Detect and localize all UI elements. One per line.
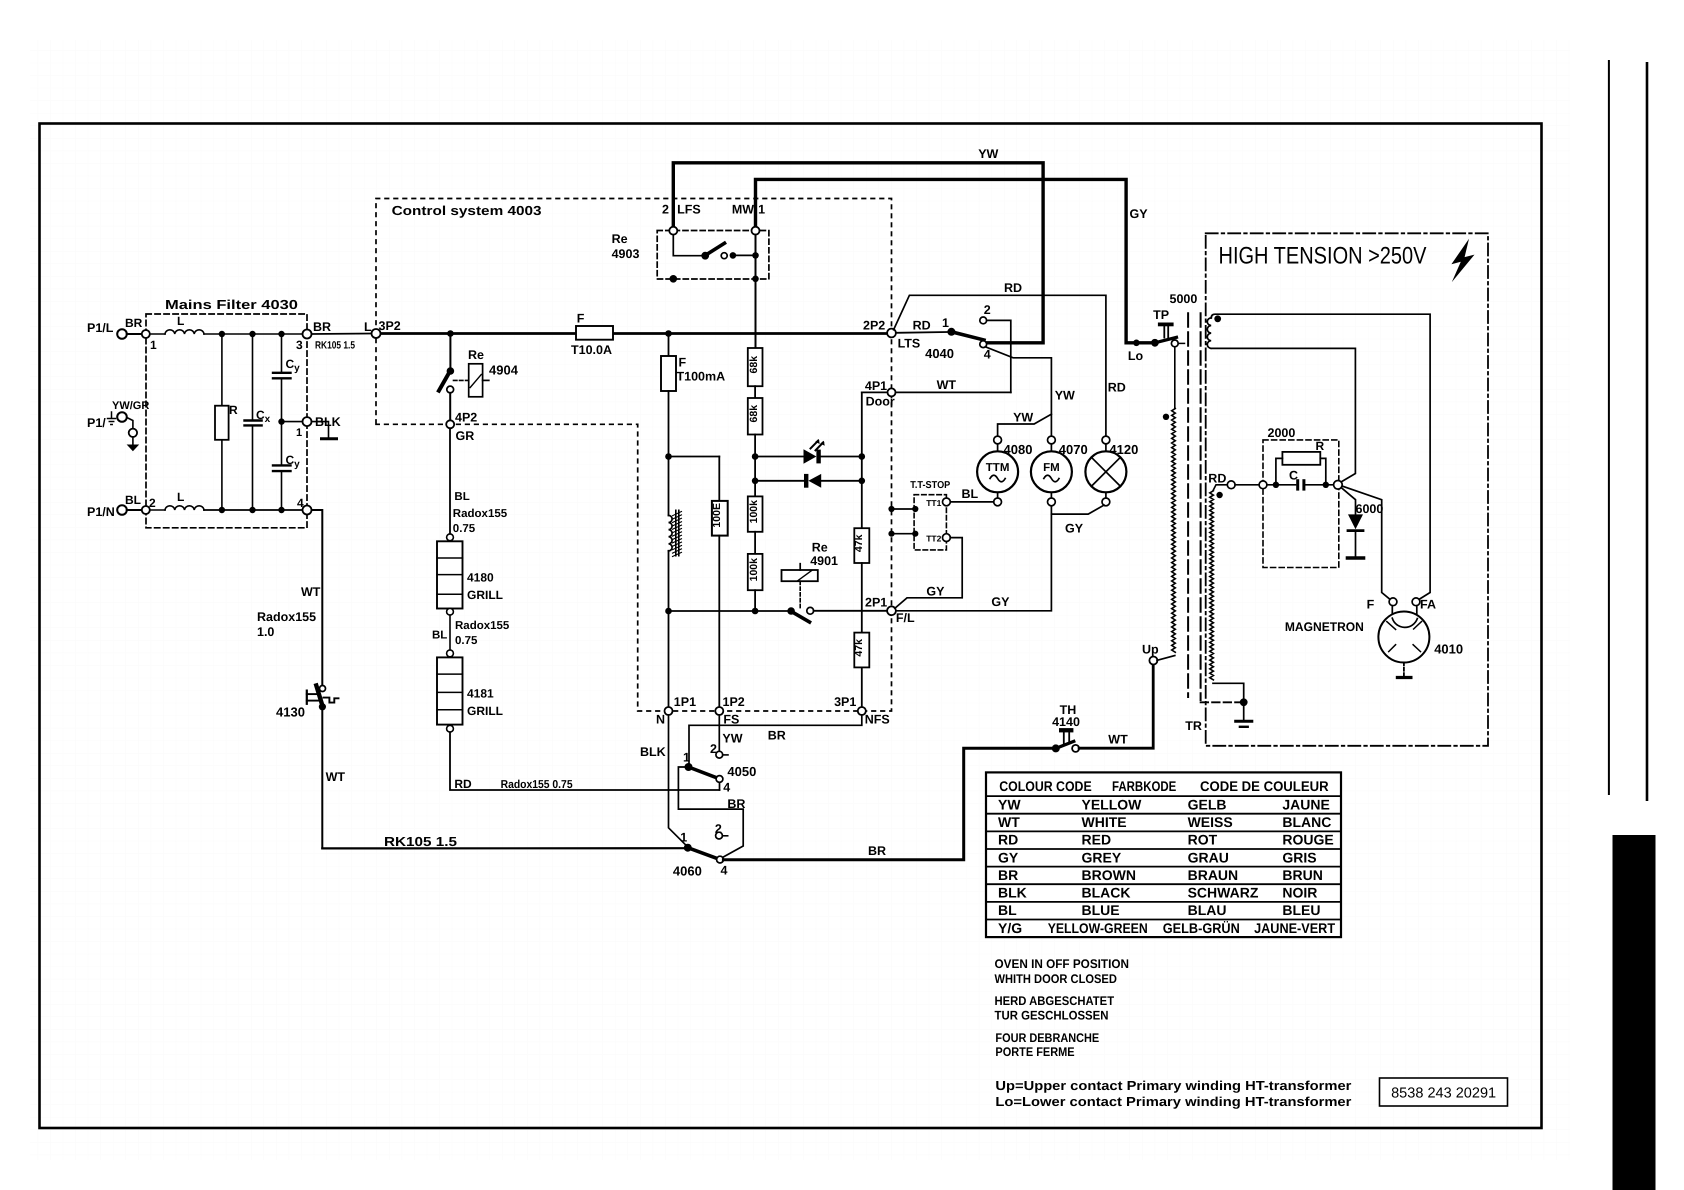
svg-text:Door: Door bbox=[866, 395, 895, 409]
node 4 bbox=[303, 506, 312, 515]
svg-text:TT1: TT1 bbox=[926, 498, 941, 508]
svg-text:FA: FA bbox=[1420, 598, 1436, 612]
heater 4181 GRILL bbox=[437, 657, 463, 724]
svg-text:FOUR DEBRANCHE: FOUR DEBRANCHE bbox=[995, 1031, 1099, 1045]
wire GY top bus bbox=[756, 179, 1153, 342]
svg-text:4: 4 bbox=[723, 781, 730, 795]
svg-text:100k: 100k bbox=[748, 558, 760, 582]
svg-text:4060: 4060 bbox=[673, 864, 702, 879]
wire GY FM bottom U to 4120 bbox=[1051, 505, 1104, 514]
svg-text:BLACK: BLACK bbox=[1082, 885, 1131, 901]
svg-text:GRILL: GRILL bbox=[467, 704, 503, 718]
contact Up bbox=[1149, 657, 1157, 665]
node 3P1 bbox=[858, 707, 866, 715]
svg-text:TT2: TT2 bbox=[926, 534, 941, 544]
svg-text:0.75: 0.75 bbox=[455, 635, 478, 647]
svg-text:68k: 68k bbox=[748, 405, 760, 423]
svg-text:1P2: 1P2 bbox=[723, 695, 745, 709]
svg-text:4130: 4130 bbox=[276, 705, 305, 720]
svg-text:OVEN IN OFF POSITION: OVEN IN OFF POSITION bbox=[995, 957, 1130, 971]
Control system 4003 dashed enclosure bbox=[376, 199, 892, 712]
svg-text:2P1: 2P1 bbox=[865, 596, 887, 610]
wire P1/L to node 1 bbox=[127, 333, 142, 335]
svg-text:3P2: 3P2 bbox=[379, 319, 401, 333]
earth ground symbol bbox=[132, 437, 134, 445]
svg-text:4903: 4903 bbox=[612, 247, 640, 261]
svg-text:YELLOW-GREEN: YELLOW-GREEN bbox=[1048, 920, 1148, 936]
heater 4180 GRILL bbox=[437, 541, 463, 608]
filament winding bbox=[1213, 485, 1227, 491]
svg-text:BL: BL bbox=[125, 493, 141, 507]
svg-text:4080: 4080 bbox=[1004, 442, 1033, 457]
svg-text:GELB: GELB bbox=[1188, 796, 1227, 812]
relay actuation dashes bbox=[454, 379, 468, 381]
HV secondary winding bbox=[1207, 318, 1211, 348]
capacitor Cy upper bbox=[281, 334, 283, 372]
resistor R vertical bbox=[221, 334, 223, 406]
relay switch Re 4903 dashed enclosure bbox=[657, 231, 769, 280]
resistor 47k (1) bbox=[854, 528, 869, 563]
svg-text:YW/GR: YW/GR bbox=[112, 400, 149, 412]
resistor 68k (1) bbox=[748, 348, 763, 386]
junction dot diode row 2 bbox=[752, 478, 759, 485]
border frame bbox=[40, 124, 1542, 1129]
wire 2P1 bus bbox=[669, 610, 788, 612]
wire node3 to 3P2 bbox=[312, 333, 372, 336]
bus 2P2 to 4040 pivot bbox=[896, 331, 948, 334]
svg-text:4050: 4050 bbox=[727, 764, 756, 779]
part number box bbox=[1380, 1078, 1508, 1106]
svg-text:JAUNE-VERT: JAUNE-VERT bbox=[1254, 920, 1335, 936]
svg-text:T100mA: T100mA bbox=[677, 370, 726, 384]
svg-text:4181: 4181 bbox=[467, 687, 494, 701]
svg-text:Lo: Lo bbox=[1128, 349, 1144, 363]
svg-text:L: L bbox=[177, 490, 184, 504]
wire contact4 down to RD bbox=[719, 782, 721, 790]
resistor 47k (2) bbox=[854, 633, 869, 668]
contact 2 bbox=[980, 317, 987, 324]
switch Re4901 pivot bbox=[787, 607, 795, 615]
svg-text:LFS: LFS bbox=[677, 203, 701, 217]
svg-text:4P2: 4P2 bbox=[455, 411, 477, 425]
magnetron ground bbox=[1403, 663, 1405, 676]
contact F bbox=[1389, 598, 1397, 606]
svg-text:2: 2 bbox=[715, 822, 722, 836]
svg-text:WT: WT bbox=[998, 814, 1020, 830]
wire BL TTM to TT1 bbox=[950, 501, 993, 503]
svg-text:RED: RED bbox=[1082, 832, 1112, 848]
svg-text:GR: GR bbox=[456, 429, 475, 443]
svg-text:BR: BR bbox=[768, 729, 786, 743]
svg-text:GY: GY bbox=[991, 595, 1010, 609]
resistor 100E bbox=[712, 501, 728, 536]
fuse F T100mA bbox=[668, 334, 670, 357]
svg-text:BR: BR bbox=[313, 320, 331, 334]
wire contact4 to FM (YW) bbox=[985, 347, 1051, 436]
svg-text:GREY: GREY bbox=[1082, 849, 1122, 865]
node MW 1 bbox=[752, 227, 760, 235]
diode row 2 (points left) bbox=[755, 480, 804, 482]
contact TT2 bbox=[943, 534, 951, 542]
capacitor Cy lower bbox=[273, 464, 291, 466]
svg-text:4: 4 bbox=[721, 864, 728, 878]
svg-text:1: 1 bbox=[296, 427, 302, 439]
svg-text:Control system 4003: Control system 4003 bbox=[392, 203, 542, 218]
switch arm inside 4903 bbox=[673, 235, 701, 256]
svg-text:GY: GY bbox=[926, 585, 945, 599]
svg-text:Radox155 0.75: Radox155 0.75 bbox=[501, 779, 574, 791]
svg-text:1: 1 bbox=[942, 316, 949, 330]
wire to F contact bbox=[1342, 486, 1390, 599]
right margin black bar bbox=[1613, 835, 1656, 1190]
svg-text:6000: 6000 bbox=[1356, 502, 1384, 516]
svg-text:4070: 4070 bbox=[1059, 442, 1088, 457]
svg-text:TTM: TTM bbox=[986, 462, 1010, 474]
primary winding (zigzag) bbox=[1174, 347, 1176, 409]
svg-text:BR: BR bbox=[868, 844, 886, 858]
svg-text:4040: 4040 bbox=[925, 346, 954, 361]
connector circles on RD line bbox=[1227, 481, 1235, 489]
wire RD to 4050 contact4 bbox=[450, 732, 720, 790]
resistor 68k (2) bbox=[748, 398, 763, 435]
svg-text:1.0: 1.0 bbox=[257, 625, 274, 639]
node 4P2 bbox=[446, 420, 454, 428]
svg-text:4120: 4120 bbox=[1109, 442, 1138, 457]
resistor 100k (1) bbox=[748, 496, 763, 531]
node 1P2 bbox=[715, 707, 723, 715]
relay Re 4901 coil bbox=[782, 570, 818, 581]
switch 4060 bbox=[684, 844, 692, 852]
svg-text:BL: BL bbox=[998, 902, 1017, 918]
svg-text:100E: 100E bbox=[711, 503, 723, 528]
svg-text:FS: FS bbox=[723, 713, 739, 727]
svg-text:YW: YW bbox=[1055, 389, 1075, 403]
svg-text:4904: 4904 bbox=[489, 363, 519, 378]
HIGH TENSION dash-dot enclosure bbox=[1206, 233, 1488, 746]
svg-text:R: R bbox=[1316, 439, 1325, 453]
svg-text:BRAUN: BRAUN bbox=[1188, 867, 1239, 883]
svg-text:P1/N: P1/N bbox=[87, 505, 115, 519]
thermal cutout 4130 bbox=[320, 686, 326, 692]
svg-text:3P1: 3P1 bbox=[834, 695, 856, 709]
node 2P1 bbox=[887, 606, 896, 615]
MW line down through box bbox=[755, 235, 757, 348]
svg-text:BR: BR bbox=[125, 316, 143, 330]
wire bus to 4904 switch bbox=[449, 334, 451, 369]
svg-text:SCHWARZ: SCHWARZ bbox=[1188, 885, 1259, 901]
svg-text:Up: Up bbox=[1142, 643, 1159, 657]
svg-text:4: 4 bbox=[984, 348, 991, 362]
wire RK105 1.5 to 4060 bbox=[322, 847, 685, 849]
svg-text:2P2: 2P2 bbox=[863, 319, 885, 333]
svg-text:3: 3 bbox=[296, 338, 303, 352]
svg-text:P1/L: P1/L bbox=[87, 321, 114, 335]
svg-text:BRUN: BRUN bbox=[1282, 867, 1322, 883]
thermal switch TH 4140 bbox=[1052, 744, 1060, 752]
svg-text:L: L bbox=[177, 314, 184, 328]
wire 4130 down bbox=[321, 707, 323, 849]
wire HV sec bottom to RC node bbox=[1211, 348, 1355, 481]
contact TT1 bbox=[943, 498, 951, 506]
svg-text:BL: BL bbox=[962, 487, 979, 501]
svg-text:1: 1 bbox=[150, 338, 157, 352]
wire BR 4060 to TH riser bbox=[723, 748, 1051, 860]
chassis ground from BLK bbox=[312, 422, 329, 438]
svg-text:N: N bbox=[656, 713, 665, 727]
svg-text:GRAU: GRAU bbox=[1188, 849, 1229, 865]
svg-text:BLK: BLK bbox=[998, 885, 1027, 901]
diode 6000 bbox=[1341, 488, 1355, 515]
wire to 100E bbox=[669, 456, 720, 458]
svg-text:F: F bbox=[679, 356, 687, 370]
svg-text:WHITE: WHITE bbox=[1082, 814, 1127, 830]
svg-text:Lo=Lower contact Primary windi: Lo=Lower contact Primary winding HT-tran… bbox=[995, 1094, 1351, 1109]
svg-text:LTS: LTS bbox=[898, 337, 921, 351]
svg-text:MW: MW bbox=[732, 203, 754, 217]
wire GY TT2 to 2P1 bbox=[895, 538, 962, 609]
svg-text:F: F bbox=[1367, 598, 1375, 612]
junction dot BLK branch bbox=[278, 418, 284, 424]
lightning bolt bbox=[1451, 239, 1474, 282]
resistor 100k (2) bbox=[748, 554, 763, 590]
svg-text:BLAU: BLAU bbox=[1188, 902, 1227, 918]
svg-text:RD: RD bbox=[1108, 381, 1126, 395]
junction dot 2P1 bus on N line bbox=[665, 608, 672, 615]
svg-text:2000: 2000 bbox=[1268, 426, 1296, 440]
node 1 bbox=[142, 330, 150, 338]
svg-text:1: 1 bbox=[683, 751, 690, 765]
svg-text:4: 4 bbox=[297, 496, 304, 510]
svg-text:Y/G: Y/G bbox=[998, 920, 1022, 936]
link dots on control edge bbox=[888, 506, 894, 512]
LED diode row 1 (points right) bbox=[755, 456, 803, 458]
wire to 4P2 bbox=[449, 393, 451, 420]
lamp 4120 bbox=[1102, 436, 1110, 444]
svg-text:YW: YW bbox=[722, 732, 742, 746]
node 2 bbox=[142, 506, 150, 514]
svg-text:RD: RD bbox=[454, 777, 472, 791]
wire YW branch to TTM bbox=[998, 414, 1052, 436]
node 2P2 bbox=[887, 329, 896, 338]
wire contact2 to WT bbox=[987, 320, 1011, 392]
wire to node 4 bbox=[204, 509, 303, 511]
TP plunger contact bbox=[1133, 340, 1140, 347]
node 3P2 bbox=[372, 329, 381, 338]
svg-text:Radox155: Radox155 bbox=[453, 508, 508, 520]
svg-text:WT: WT bbox=[326, 770, 346, 784]
svg-text:BL: BL bbox=[432, 630, 447, 642]
wire YW 1P2 to contact 2 bbox=[718, 715, 720, 751]
node 3 bbox=[303, 330, 312, 339]
svg-text:WT: WT bbox=[1108, 733, 1128, 747]
svg-text:Radox155: Radox155 bbox=[455, 620, 510, 632]
svg-text:BLEU: BLEU bbox=[1282, 902, 1320, 918]
junction dot T100mA branch bbox=[665, 330, 672, 337]
switch Re4904 contact pivot bbox=[447, 367, 455, 375]
node LFS bbox=[669, 227, 677, 235]
svg-text:RD: RD bbox=[1004, 281, 1022, 295]
wire to BLK node bbox=[282, 421, 303, 423]
svg-text:2: 2 bbox=[149, 496, 156, 510]
svg-text:PORTE FERME: PORTE FERME bbox=[995, 1045, 1074, 1059]
svg-text:YW: YW bbox=[978, 147, 998, 161]
svg-text:ROT: ROT bbox=[1188, 832, 1218, 848]
motor TTM 4080 bbox=[994, 436, 1002, 444]
wire NFS to 4050 pivot bbox=[689, 715, 862, 763]
svg-text:47k: 47k bbox=[853, 534, 865, 552]
magnetron 4010 body bbox=[1391, 606, 1393, 619]
core lines bbox=[1187, 313, 1189, 697]
junction dot 100E branch bbox=[665, 453, 672, 460]
svg-text:WT: WT bbox=[301, 585, 321, 599]
svg-text:RD: RD bbox=[913, 319, 931, 333]
svg-text:ROUGE: ROUGE bbox=[1282, 832, 1333, 848]
wire node1 line to node 3 bbox=[204, 333, 303, 335]
svg-text:BL: BL bbox=[454, 491, 469, 503]
junction dot Re4904 branch bbox=[447, 330, 454, 337]
wire RD riser from 2P2 bbox=[894, 295, 1106, 436]
svg-text:5000: 5000 bbox=[1170, 292, 1198, 306]
svg-text:JAUNE: JAUNE bbox=[1282, 796, 1329, 812]
svg-text:WHITH DOOR CLOSED: WHITH DOOR CLOSED bbox=[995, 972, 1117, 986]
svg-text:4140: 4140 bbox=[1052, 715, 1080, 729]
svg-text:BR: BR bbox=[727, 797, 745, 811]
wire to Up contact bbox=[1157, 656, 1175, 661]
svg-text:BLANC: BLANC bbox=[1282, 814, 1331, 830]
2000 dashed enclosure bbox=[1263, 440, 1339, 568]
relay Re 4904 coil box bbox=[469, 364, 483, 397]
svg-text:2: 2 bbox=[662, 203, 669, 217]
svg-text:YW: YW bbox=[1013, 411, 1033, 425]
svg-text:HIGH TENSION >250V: HIGH TENSION >250V bbox=[1219, 243, 1427, 270]
node 1P1 bbox=[665, 707, 673, 715]
svg-text:F: F bbox=[577, 312, 585, 326]
motor FM 4070 bbox=[1048, 436, 1056, 444]
svg-text:Mains Filter 4030: Mains Filter 4030 bbox=[165, 297, 298, 312]
node 4P1 bbox=[888, 388, 896, 396]
svg-text:BR: BR bbox=[998, 867, 1018, 883]
right margin rule 1 bbox=[1608, 60, 1610, 795]
node BLK bbox=[303, 417, 312, 426]
svg-text:P1/: P1/ bbox=[87, 416, 106, 430]
wire BR 4050 pivot to 4060 contact4 bbox=[678, 767, 743, 858]
LED light arrows bbox=[811, 441, 824, 451]
svg-text:HERD ABGESCHATET: HERD ABGESCHATET bbox=[995, 994, 1115, 1008]
svg-text:WEISS: WEISS bbox=[1188, 814, 1233, 830]
svg-text:4010: 4010 bbox=[1434, 642, 1463, 657]
svg-text:GY: GY bbox=[1130, 207, 1149, 221]
svg-text:GELB-GRÜN: GELB-GRÜN bbox=[1163, 920, 1240, 936]
wire WT 4P1 to 4040 contact2 drop bbox=[896, 391, 1011, 393]
svg-text:RD: RD bbox=[1208, 472, 1226, 486]
svg-text:GRIS: GRIS bbox=[1282, 849, 1316, 865]
svg-text:4P1: 4P1 bbox=[865, 379, 887, 393]
svg-text:RK105 1.5: RK105 1.5 bbox=[315, 340, 355, 352]
svg-text:GY: GY bbox=[998, 849, 1019, 865]
wire 4P1 to divider bbox=[862, 391, 888, 393]
wire N line bbox=[668, 391, 670, 515]
capacitor Cx bbox=[252, 334, 254, 420]
svg-text:47k: 47k bbox=[853, 639, 865, 657]
svg-text:MAGNETRON: MAGNETRON bbox=[1285, 620, 1364, 634]
contact FA bbox=[1412, 598, 1420, 606]
dot on 4903 box edge bbox=[670, 275, 678, 283]
transformer primary on N line bbox=[669, 515, 673, 550]
resistor R bbox=[1282, 452, 1320, 465]
svg-text:1P1: 1P1 bbox=[674, 695, 696, 709]
svg-text:T.T-STOP: T.T-STOP bbox=[910, 480, 950, 491]
svg-text:YELLOW: YELLOW bbox=[1082, 796, 1143, 812]
svg-text:COLOUR CODE: COLOUR CODE bbox=[999, 778, 1091, 794]
svg-text:FM: FM bbox=[1043, 462, 1060, 474]
svg-text:T10.0A: T10.0A bbox=[571, 343, 612, 357]
47k divider line bbox=[861, 392, 863, 528]
svg-text:4180: 4180 bbox=[467, 571, 494, 585]
svg-text:CODE DE COULEUR: CODE DE COULEUR bbox=[1200, 778, 1329, 794]
L bus 3P2 to 2P2 bbox=[376, 332, 892, 335]
svg-text:RD: RD bbox=[998, 832, 1018, 848]
svg-text:RK105 1.5: RK105 1.5 bbox=[384, 834, 457, 849]
wire to earth bbox=[127, 418, 133, 429]
svg-text:R: R bbox=[229, 403, 238, 417]
filament bottom to ground bbox=[1213, 683, 1244, 698]
svg-text:BLUE: BLUE bbox=[1082, 902, 1120, 918]
svg-text:68k: 68k bbox=[748, 356, 760, 374]
svg-text:Re: Re bbox=[468, 348, 484, 362]
svg-text:Re: Re bbox=[812, 541, 828, 555]
contact 4 bbox=[980, 341, 987, 348]
svg-text:F/L: F/L bbox=[896, 611, 915, 625]
wire YW top bus bbox=[673, 163, 1043, 343]
svg-text:8538 243 20291: 8538 243 20291 bbox=[1391, 1086, 1496, 1102]
fuse F T10.0A bbox=[576, 326, 613, 340]
svg-text:2: 2 bbox=[710, 742, 717, 756]
svg-text:4901: 4901 bbox=[810, 554, 838, 568]
wire BLK 1P1 to 4060 pivot bbox=[669, 715, 688, 846]
colour code table frame bbox=[986, 772, 1341, 937]
switch 4040 pivot 1 bbox=[947, 328, 955, 336]
wire GY FM down to 2P1 bbox=[896, 514, 1051, 611]
svg-text:GRILL: GRILL bbox=[467, 588, 503, 602]
T.T-STOP dashed enclosure bbox=[914, 495, 946, 550]
svg-text:TP: TP bbox=[1153, 308, 1169, 322]
svg-text:GY: GY bbox=[1065, 522, 1084, 536]
svg-text:Re: Re bbox=[612, 232, 628, 246]
svg-text:L: L bbox=[364, 320, 372, 334]
svg-text:100k: 100k bbox=[748, 500, 760, 524]
svg-text:0.75: 0.75 bbox=[453, 523, 476, 535]
svg-text:WT: WT bbox=[937, 378, 957, 392]
wire HV sec top to FA bbox=[1211, 314, 1430, 600]
wire GR down bbox=[449, 428, 451, 534]
svg-text:2: 2 bbox=[984, 303, 991, 317]
svg-text:BLK: BLK bbox=[640, 745, 666, 759]
svg-text:TUR GESCHLOSSEN: TUR GESCHLOSSEN bbox=[995, 1009, 1109, 1023]
junction dots top bbox=[219, 331, 225, 337]
svg-text:1: 1 bbox=[680, 831, 687, 845]
right margin rule 2 bbox=[1646, 62, 1649, 801]
wire node4 to WT drop bbox=[312, 510, 323, 686]
svg-text:NOIR: NOIR bbox=[1282, 885, 1317, 901]
Mains Filter 4030 dashed enclosure bbox=[146, 314, 307, 528]
svg-text:Radox155: Radox155 bbox=[257, 610, 316, 624]
junction dot diode row 1 bbox=[752, 453, 759, 460]
svg-text:FARBKODE: FARBKODE bbox=[1112, 778, 1176, 794]
switch 4050 bbox=[716, 751, 723, 758]
svg-text:TR: TR bbox=[1185, 719, 1202, 733]
svg-text:YW: YW bbox=[998, 796, 1021, 812]
svg-text:BROWN: BROWN bbox=[1082, 867, 1136, 883]
